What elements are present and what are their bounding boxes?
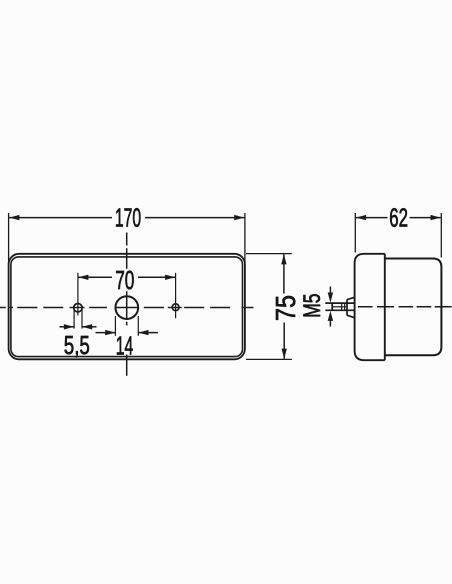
dim 5,5 left arrowhead pointing right <box>64 324 74 329</box>
stud upper edge line <box>325 302 354 304</box>
dim 75 top extension line <box>246 253 292 255</box>
dim 5,5 left extension line <box>73 308 75 329</box>
dim 75 line lower part <box>283 323 285 359</box>
svg-text:5,5: 5,5 <box>64 330 90 360</box>
dim 14 left arrow shaft <box>96 332 116 334</box>
side view centerline dash-dot <box>358 306 452 308</box>
lamp body outer contour (front view) <box>9 254 245 359</box>
dim 62 right arrowhead <box>431 215 441 220</box>
right hole vertical center tick <box>175 297 177 318</box>
vertical centerline middle segment through circle <box>126 291 128 325</box>
dim 70 left extension line through left hole <box>77 273 79 316</box>
dim 14 right arrow shaft <box>139 332 158 334</box>
dim 62 right extension line <box>440 213 442 258</box>
dim 75 top arrowhead <box>281 254 286 264</box>
vertical centerline lower segment <box>126 355 128 376</box>
svg-text:170: 170 <box>115 203 141 233</box>
dim 5,5 right extension line <box>81 308 83 329</box>
right hole horizontal center mark <box>168 307 182 309</box>
svg-text:14: 14 <box>116 331 134 361</box>
dim 70 line left part <box>78 276 112 278</box>
dim 62 left arrowhead <box>356 215 366 220</box>
left mounting hole dia 5,5 <box>74 304 82 312</box>
dim 14 left arrowhead pointing right <box>105 330 115 335</box>
dim 170 left extension line <box>8 213 10 264</box>
svg-text:M5: M5 <box>299 294 326 318</box>
lamp lens inner contour (front view) <box>11 257 243 357</box>
dim M5 lower arrow shaft <box>329 318 331 327</box>
dim 70 line right part <box>138 276 175 278</box>
dim 75 line upper part <box>283 254 285 293</box>
vertical centerline upper segment (front view) <box>126 233 128 269</box>
dim 170 right arrowhead <box>234 215 244 220</box>
dim 62 left extension line <box>354 213 356 253</box>
centerline piece through stud <box>333 306 346 308</box>
dim M5 lower arrowhead pointing up <box>328 311 333 321</box>
dim 70 right arrowhead <box>165 275 175 280</box>
stud thread tick 1 <box>341 304 343 310</box>
dim 170 line right part <box>145 217 244 219</box>
dim M5 upper arrowhead pointing down <box>328 293 333 303</box>
left hole horizontal center mark <box>70 307 85 309</box>
dim 75 bottom arrowhead <box>282 349 287 359</box>
dim 70 right extension line <box>175 273 177 298</box>
center hole circle dia 14 <box>115 296 138 319</box>
dim 14 right extension line <box>137 316 139 336</box>
svg-text:70: 70 <box>115 265 134 295</box>
svg-text:62: 62 <box>389 203 408 233</box>
dim 14 right arrowhead pointing left <box>138 330 148 335</box>
dim 75 bottom extension line <box>246 358 292 360</box>
dim 170 line left part <box>9 217 112 219</box>
dim 62 line right part <box>410 217 441 219</box>
right mounting hole <box>172 304 179 311</box>
dim 5,5 right arrow shaft <box>82 326 96 328</box>
dim 62 line left part <box>356 217 388 219</box>
dim 5,5 right arrowhead pointing left <box>82 324 92 329</box>
stud boss frustum <box>347 297 355 317</box>
side view lens outline <box>385 259 442 356</box>
side view lens rim vertical line <box>384 254 386 360</box>
side view housing outline <box>355 254 385 360</box>
stud lower edge line <box>325 309 354 311</box>
svg-text:75: 75 <box>270 295 301 321</box>
stud thread tick 2 <box>344 304 346 310</box>
horizontal centerline (front view) <box>0 307 254 309</box>
dim 14 left extension line <box>114 316 116 336</box>
stud end cap <box>331 303 333 311</box>
dim 5,5 left arrow shaft <box>60 326 74 328</box>
dim 70 left arrowhead <box>78 275 88 280</box>
dim 170 left arrowhead <box>9 215 19 220</box>
dim 170 right extension line <box>244 213 246 264</box>
dim M5 upper arrow shaft <box>329 287 331 296</box>
center circle horizontal center mark <box>115 307 139 309</box>
